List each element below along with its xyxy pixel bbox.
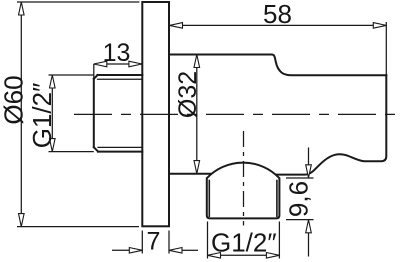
G12 left ext bottom bbox=[49, 151, 94, 153]
svg-text:Ø32: Ø32 bbox=[174, 71, 202, 118]
body bottom edge left of nut bbox=[169, 173, 210, 175]
dim 96 bottom tail bbox=[308, 233, 310, 257]
svg-text:Ø60: Ø60 bbox=[0, 75, 29, 124]
svg-text:7: 7 bbox=[147, 228, 161, 256]
O60 ext top bbox=[17, 1, 139, 3]
dim 96 top tail bbox=[308, 148, 310, 165]
dim 58 line bbox=[170, 24, 387, 26]
G12 bottom left ext bbox=[207, 222, 209, 259]
nut hex corner line left bbox=[208, 181, 210, 217]
G12 bottom right ext bbox=[278, 222, 280, 259]
arrow 96 bottom bbox=[306, 220, 312, 233]
dim O32 line bbox=[196, 55, 198, 174]
nut hex corner line right bbox=[276, 181, 278, 217]
dim 7 left ext bbox=[141, 231, 143, 254]
dim 13 line bbox=[94, 63, 142, 65]
nipple thread root top bbox=[98, 78, 143, 80]
arrow O32 bottom bbox=[194, 161, 200, 174]
svg-text:13: 13 bbox=[103, 39, 131, 67]
96 ext bottom bbox=[286, 219, 314, 221]
G12 bottom dim line bbox=[208, 254, 280, 256]
arrow 58 left bbox=[170, 23, 183, 29]
dim 58 right ext line bbox=[385, 22, 387, 75]
dim 13 left ext bbox=[93, 64, 95, 79]
arrow 7 right bbox=[169, 248, 182, 254]
svg-text:58: 58 bbox=[263, 0, 292, 29]
dim G12 left line bbox=[51, 75, 53, 152]
nipple thread root bottom bbox=[98, 146, 142, 148]
dim O60 line bbox=[20, 2, 22, 227]
nipple chamfer bottom bbox=[94, 147, 98, 151]
arrow 7 left bbox=[129, 248, 142, 254]
dim 7 left tail bbox=[112, 249, 129, 251]
nipple chamfer top bbox=[94, 75, 98, 79]
O60 ext bottom bbox=[17, 226, 139, 228]
dim 7 right ext bbox=[168, 231, 170, 254]
arrow G12 bottom left bbox=[208, 253, 221, 259]
body right face and hook bottom bbox=[277, 75, 386, 174]
centerline horizontal bbox=[74, 113, 398, 115]
flange bbox=[142, 2, 169, 226]
nipple crest bottom bbox=[98, 151, 142, 153]
96 ext top bbox=[286, 177, 314, 179]
nipple crest top bbox=[98, 74, 143, 76]
centerline vertical of outlet bbox=[243, 131, 245, 226]
cap nut outline bbox=[207, 163, 280, 219]
body top edge with step bbox=[169, 55, 386, 76]
arrow G12 bottom right bbox=[266, 253, 279, 259]
arrow O60 top bbox=[19, 2, 25, 15]
svg-text:G1/2″: G1/2″ bbox=[27, 83, 57, 149]
arrow O60 bottom bbox=[19, 214, 25, 227]
nipple end face bbox=[93, 79, 95, 147]
svg-text:G1/2″: G1/2″ bbox=[211, 228, 277, 258]
G12 left ext top bbox=[49, 74, 94, 76]
arrow 13 right bbox=[129, 61, 142, 67]
arrow 96 top bbox=[306, 165, 312, 178]
arrow G12 left bottom bbox=[50, 139, 56, 152]
dim 7 right tail bbox=[183, 249, 199, 251]
svg-text:9,6: 9,6 bbox=[284, 181, 314, 217]
arrow O32 top bbox=[194, 55, 200, 68]
arrow 58 right bbox=[373, 23, 386, 29]
arrow 13 left bbox=[94, 61, 107, 67]
arrow G12 left top bbox=[50, 75, 56, 88]
